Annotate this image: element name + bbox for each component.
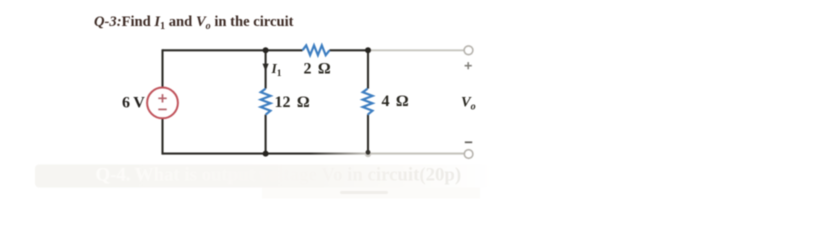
svg-text:4 Ω: 4 Ω — [382, 93, 409, 110]
node A (top of 12 ohm) — [263, 47, 269, 53]
svg-text:Q-3:Find I1 and Vo in the circ: Q-3:Find I1 and Vo in the circuit — [94, 14, 294, 32]
svg-text:Vo: Vo — [461, 95, 476, 113]
wire left upper — [161, 49, 163, 87]
minus sign at output — [465, 141, 472, 143]
plus sign inside source — [158, 94, 166, 102]
12-ohm branch wire lower — [265, 115, 267, 154]
minus sign inside source — [158, 108, 166, 110]
wire left lower — [161, 118, 163, 154]
svg-text:Q-4. What is output voltage V: Q-4. What is output voltage Vo in circui… — [96, 165, 462, 186]
terminal bottom right — [464, 150, 473, 159]
wire top left — [163, 49, 303, 51]
node D (bottom of 4 ohm) — [365, 151, 371, 157]
node C (bottom of 12 ohm) — [263, 151, 269, 157]
plus sign at output — [465, 62, 472, 69]
faint band Q-4 — [35, 165, 492, 199]
node B (top of 4 ohm) — [365, 47, 371, 53]
4-ohm branch wire lower — [367, 115, 369, 153]
resistor R2 12 ohm (vertical zigzag) — [261, 89, 271, 115]
12-ohm branch wire upper — [265, 50, 267, 88]
wire top right gray — [368, 49, 464, 51]
resistor R3 4 ohm (vertical zigzag) — [363, 89, 373, 115]
resistor R1 2 ohm (horizontal zigzag) — [303, 45, 330, 55]
current arrow I1 — [263, 64, 269, 72]
svg-text:2 Ω: 2 Ω — [304, 61, 331, 78]
svg-text:I1: I1 — [271, 61, 282, 79]
wire top between resistor and node — [330, 49, 369, 51]
svg-text:6 V: 6 V — [122, 95, 145, 112]
voltage source V1 6V — [147, 88, 178, 119]
terminal top right — [464, 46, 473, 55]
svg-text:12 Ω: 12 Ω — [275, 94, 310, 111]
wire bottom (fades to gray) — [163, 153, 465, 155]
4-ohm branch wire upper — [367, 50, 369, 88]
